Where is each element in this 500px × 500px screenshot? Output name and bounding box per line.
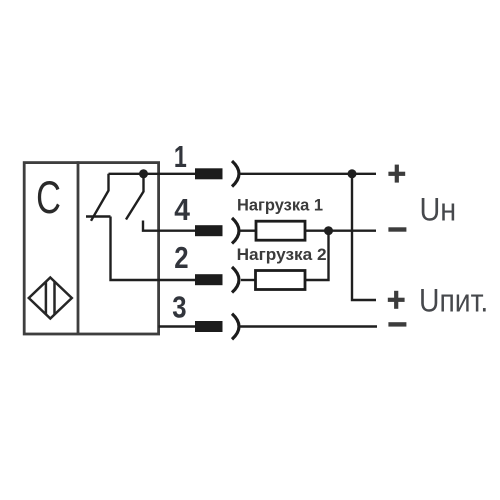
sensor body outline [24, 163, 158, 334]
sensor element symbol: right inner bar [53, 282, 56, 315]
wire: pin 4 to load 1 [241, 229, 257, 231]
junction dot pin 1 / supply bus [348, 169, 357, 178]
wire: load 2 up to junction on pin 4 line [305, 231, 329, 280]
connector socket arc pin 3 [232, 314, 239, 340]
junction dot on common line [139, 169, 148, 178]
svg-text:Uн: Uн [420, 192, 457, 228]
svg-text:4: 4 [174, 193, 190, 228]
load resistor 1 (Нагрузка 1) [256, 221, 305, 240]
connector socket arc pin 1 [232, 161, 239, 187]
wire: supply bus down to Upit plus [352, 174, 376, 300]
svg-text:Нагрузка 2: Нагрузка 2 [237, 245, 327, 264]
sensor element symbol: left inner bar [45, 282, 48, 315]
plus sign (load supply +) [388, 165, 405, 183]
minus sign (Uпит −) [388, 322, 406, 326]
wire: pin 3 to minus supply terminal [241, 325, 378, 327]
plus sign (Uпит +) [388, 291, 405, 309]
svg-text:C: C [36, 171, 61, 223]
switch fixed contact (pin 4 side) [143, 221, 159, 231]
wire: pin 3 lead out of body [159, 325, 196, 327]
wire: pin 2 to load 2 [241, 279, 256, 281]
connector socket arc pin 2 [232, 267, 239, 293]
pin 3 contact bar [195, 321, 223, 332]
junction dot load bus [324, 226, 333, 235]
switch arm NC (to pin 2) [91, 174, 109, 221]
svg-text:3: 3 [172, 290, 186, 325]
svg-text:Uпит.: Uпит. [419, 284, 488, 319]
sensor body divider [77, 161, 80, 334]
connector socket arc pin 4 [232, 218, 239, 244]
svg-text:1: 1 [174, 139, 187, 174]
wire: pin 1 to plus terminal [241, 173, 377, 175]
sensor element symbol: diamond [29, 278, 72, 319]
wire: common line inside body to pin 1 [109, 173, 196, 175]
wire: fixed contact down to pin 2 level [111, 217, 159, 281]
switch fixed contact (pin 2 side) [86, 215, 111, 217]
wire: load 1 to minus terminal [305, 229, 376, 231]
svg-text:2: 2 [174, 241, 188, 276]
pin 4 contact bar [195, 225, 223, 236]
wire: pin 4 lead out of body [159, 229, 196, 231]
pin 2 contact bar [195, 274, 223, 285]
switch arm NO (to pin 4) [126, 174, 144, 220]
pin 1 contact bar [195, 168, 223, 179]
svg-text:Нагрузка 1: Нагрузка 1 [237, 196, 323, 215]
minus sign (load return −) [388, 227, 406, 231]
wire: pin 2 lead out of body [159, 279, 196, 281]
load resistor 2 (Нагрузка 2) [256, 271, 306, 290]
